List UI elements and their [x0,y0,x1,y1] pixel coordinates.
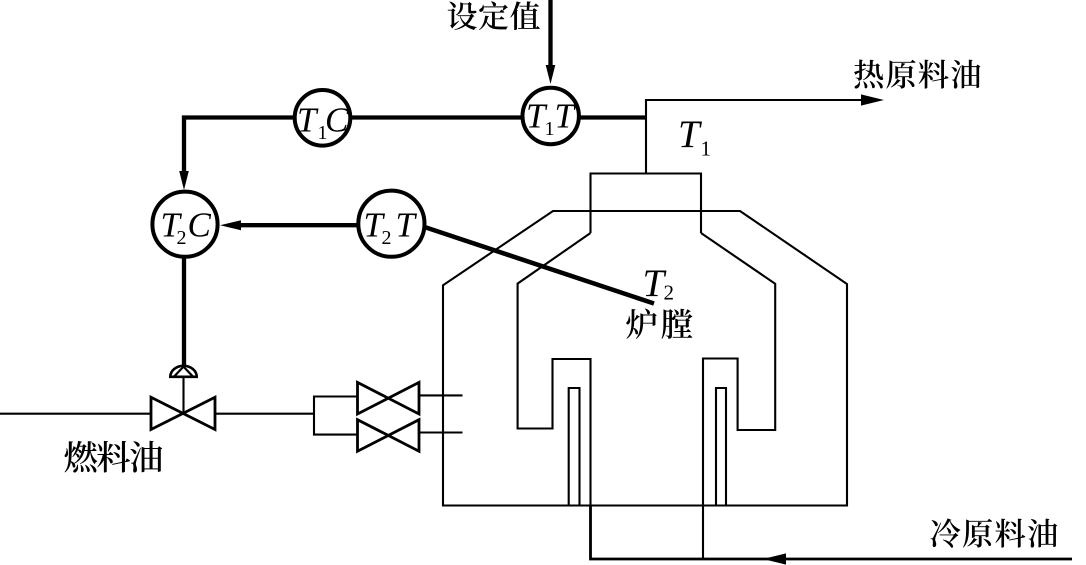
label hot feed oil 热原料油 [854,60,980,89]
label setpoint 设定值 [448,1,540,30]
furnace outer wall [443,211,847,506]
svg-text:C: C [188,206,212,245]
manifold bracket [314,397,357,435]
furnace inner wall left + left burner port [518,233,591,559]
arrowhead cold feed oil line [763,553,786,564]
wire T2C output down to valve actuator [182,256,186,365]
transmitter T2T [358,191,424,257]
svg-text:C: C [325,101,349,140]
svg-text:1: 1 [701,137,712,161]
wire T2 thermocouple diagonal into furnace [423,227,654,304]
signal wire group [184,0,654,365]
svg-text:T: T [678,113,702,156]
label furnace chamber 炉膛 [626,308,692,338]
shutoff valve upper burner [358,382,420,414]
wire T2T output to T2C [240,223,360,227]
valve actuator diaphragm [170,366,196,377]
arrowhead hot feed oil line [861,94,884,105]
furnace inner wall right + right burner port [701,233,775,559]
svg-text:1: 1 [545,118,555,140]
controller T2C [152,192,217,257]
arrowhead into T2C from right [220,220,241,230]
svg-text:T: T [396,206,418,245]
svg-text:2: 2 [664,281,675,305]
right burner tube [716,388,726,506]
wire T1 loop: T1T to T1C to corner, down to T2C [184,118,646,173]
pipe fuel line valve to manifold [216,413,314,415]
wire setpoint vertical into T1T [548,0,552,68]
pipe upper burner feed into furnace [420,394,463,396]
furnace neck box [591,174,702,234]
arrowhead into T2C from above [179,171,189,190]
transmitter T1T [523,88,579,144]
controller T1C [295,90,351,146]
svg-text:T: T [297,101,319,140]
pipe hot feed outlet with arrow line [646,100,864,174]
pipe fuel oil line left segment [0,413,150,415]
label cold feed oil 冷原料油 [931,518,1058,547]
pipe cold feed inlet [591,506,1073,560]
shutoff valve lower burner [358,420,420,452]
label fuel oil 燃料油 [65,441,163,473]
arrowhead setpoint into T1T [546,65,556,84]
valve group [151,382,419,451]
control valve V1 body [151,397,215,429]
pipe lower burner feed into furnace [420,431,463,433]
svg-text:2: 2 [382,227,392,249]
valve stem [182,377,184,414]
arrowhead group [179,65,884,565]
svg-text:T: T [555,97,577,136]
instrument circle group [152,88,579,257]
svg-text:2: 2 [177,227,187,249]
left burner tube [569,388,580,506]
